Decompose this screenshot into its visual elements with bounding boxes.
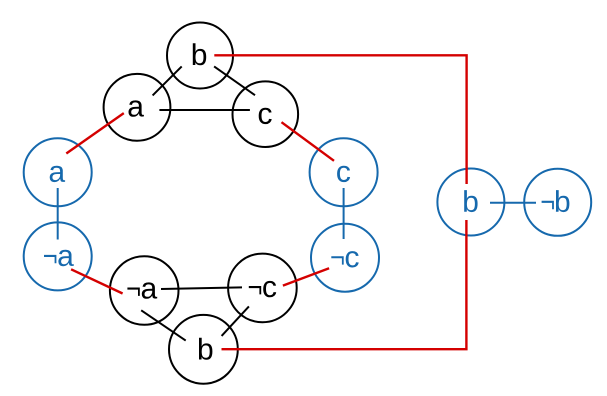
- node label blue b: [464, 190, 477, 212]
- node: black circle a (top clause): [104, 74, 171, 141]
- wire: black edge not-a - b (bottom clause): [141, 310, 186, 340]
- node label b (bottom clause): [199, 338, 212, 360]
- wire: red edge not-a(bottom) to blue not-a: [71, 269, 123, 293]
- node label blue c: [337, 166, 350, 182]
- node: blue circle not-b (variable gadget right): [524, 169, 591, 236]
- node: blue circle not-a (variable gadget): [24, 222, 92, 290]
- node label not-c (bottom clause): [249, 281, 276, 297]
- node label blue not-a: [44, 250, 74, 266]
- node: black circle b (bottom clause): [169, 315, 238, 384]
- wire: red edge not-c(bottom) to blue not-c: [283, 268, 329, 285]
- node: black circle not-a (bottom clause): [110, 256, 179, 325]
- node: blue circle a (variable gadget): [24, 138, 92, 206]
- node label b (top clause): [193, 43, 206, 65]
- wire: black edge a-c (top clause): [159, 109, 250, 111]
- wire: red edge a(top) to blue a: [66, 113, 124, 153]
- wire: black edge a-b (top clause): [153, 66, 182, 95]
- node label not-a (bottom clause): [127, 282, 157, 298]
- node label a (top clause): [129, 100, 144, 116]
- wire: blue edge a - not-a: [57, 188, 59, 240]
- node: blue circle b (variable gadget right): [437, 169, 504, 236]
- wire: black edge not-a - not-c (bottom clause): [161, 287, 242, 289]
- node label blue not-b: [542, 190, 570, 212]
- wire: red elbow connector b(bottom) to blue b: [222, 220, 467, 349]
- wire: black edge not-c - b (bottom clause): [222, 306, 249, 336]
- node: black circle b (top clause): [167, 23, 233, 89]
- node: black circle c (top clause): [232, 81, 298, 147]
- node: blue circle c (variable gadget): [310, 138, 378, 206]
- wire: red elbow connector b(top) to blue b: [214, 55, 466, 184]
- wire: blue edge c - not-c: [343, 188, 345, 239]
- node: blue circle not-c (variable gadget): [311, 224, 379, 292]
- node label c (top clause): [259, 108, 272, 124]
- wire: blue edge b - not-b: [490, 202, 536, 204]
- node label blue a: [50, 166, 65, 182]
- node label blue not-c: [331, 251, 358, 267]
- wire: black edge b-c (top clause): [214, 66, 255, 95]
- wire: red edge c(top) to blue c: [282, 122, 335, 161]
- node: black circle not-c (bottom clause): [228, 254, 297, 323]
